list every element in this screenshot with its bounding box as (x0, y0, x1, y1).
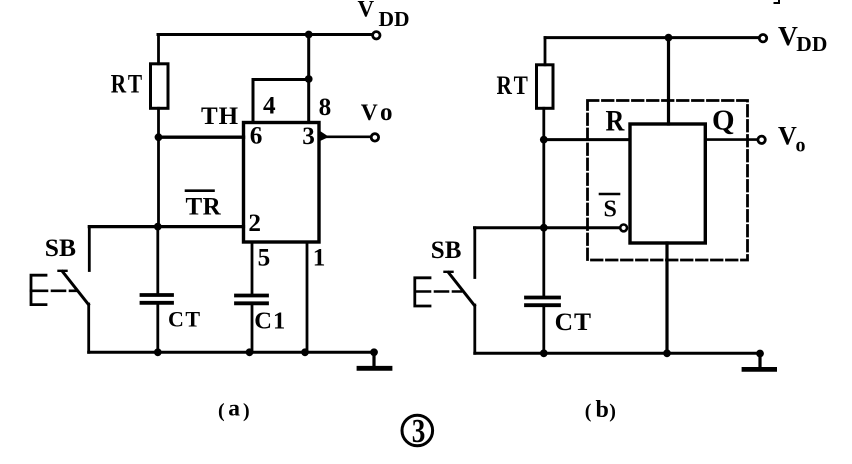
switch SB arm (a) (59, 271, 89, 305)
svg-text:V: V (778, 20, 798, 51)
node block-ground junction (b) (663, 349, 671, 357)
terminal VDD (a) (373, 32, 380, 39)
capacitor CT (a) bottom lead (156, 305, 159, 353)
svg-text:DD: DD (379, 7, 410, 31)
node pin4 branch junction (a) (305, 75, 313, 83)
svg-text:V: V (361, 100, 378, 126)
svg-text:(: ( (585, 401, 592, 423)
label (b) (585, 397, 616, 423)
svg-text:RT: RT (497, 72, 531, 100)
svg-text:3: 3 (412, 412, 426, 450)
wire TR line to pin 2 (a) (89, 225, 243, 228)
ground (a) (359, 348, 390, 368)
wire pin 5 lead to C1 (251, 242, 254, 293)
node supply junction (b) (665, 34, 673, 42)
svg-text:TR: TR (186, 193, 222, 220)
wire block bottom to ground rail (b) (665, 243, 668, 353)
ground (b) (744, 350, 775, 370)
node R junction (b) (540, 136, 548, 144)
dashed actuator link (a) (31, 289, 76, 292)
switch SB upper lead (b) (473, 228, 476, 278)
svg-text:8: 8 (319, 94, 332, 121)
switch SB arm (b) (445, 272, 475, 306)
node supply junction (a) (305, 31, 313, 39)
wire RT top lead (a) (157, 35, 160, 64)
svg-text:4: 4 (263, 93, 276, 120)
svg-text:6: 6 (250, 123, 263, 150)
capacitor C1 plates (236, 296, 267, 304)
svg-text:): ) (243, 400, 250, 422)
switch SB upper lead (a) (88, 227, 91, 271)
svg-text:SB: SB (45, 233, 76, 262)
svg-text:V: V (778, 121, 797, 150)
terminal VDD (b) (759, 35, 766, 42)
svg-text:a: a (228, 396, 240, 422)
switch SB lower lead (b) (473, 305, 476, 353)
terminal Vo (a) (371, 134, 378, 141)
label Vo (b) (778, 121, 806, 156)
capacitor CT (b) top lead (542, 228, 545, 296)
wire RT top lead (b) (544, 38, 547, 65)
pushbutton actuator symbol (b) (415, 278, 430, 306)
label TR with overline (186, 191, 222, 221)
node C1-ground junction (a) (246, 348, 254, 356)
svg-text:CT: CT (555, 307, 592, 336)
wire RT bottom lead down column (a) (157, 108, 160, 226)
capacitor CT (a) plates (142, 295, 173, 303)
svg-text:3: 3 (302, 123, 315, 150)
flip-flop block (b) (630, 124, 705, 243)
svg-text:5: 5 (258, 244, 271, 271)
svg-text:V: V (358, 0, 375, 22)
figure number 3 circled (402, 412, 433, 450)
page artifact top right (775, 0, 780, 3)
svg-text:TH: TH (201, 103, 239, 130)
svg-text:o: o (380, 99, 393, 126)
svg-text:o: o (796, 135, 806, 157)
node TH junction (a) (155, 133, 163, 141)
svg-text:2: 2 (248, 210, 261, 237)
capacitor CT (b) bottom lead (542, 307, 545, 353)
label S with overline (600, 194, 619, 223)
resistor RT (b) (537, 65, 554, 109)
node CT-ground junction (b) (540, 349, 548, 357)
node pin1-ground junction (a) (301, 348, 309, 356)
wire R input (b) (544, 138, 629, 141)
wire Q output (b) (705, 138, 757, 141)
wire pin 8 from rail (a) (307, 35, 310, 123)
pushbutton actuator symbol (a) (31, 275, 46, 304)
wire S input (b) (475, 226, 620, 229)
arrowhead on pin 3 output (a) (320, 131, 330, 142)
wire VDD supply rail (b) (545, 36, 757, 39)
label VDD (a) (358, 0, 410, 31)
svg-text:b: b (596, 397, 609, 423)
svg-text:S: S (604, 197, 617, 223)
label Vo (a) (361, 99, 393, 126)
svg-text:SB: SB (431, 237, 462, 264)
dashed actuator link (b) (415, 290, 461, 293)
wire output pin 3 (a) (319, 136, 372, 139)
wire pin 4 to supply branch (a) (253, 80, 309, 123)
inverter bubble on S input (b) (620, 225, 627, 232)
svg-text:DD: DD (796, 32, 827, 56)
wire VDD supply rail (a) (158, 33, 372, 36)
wire RT bottom lead down column (b) (542, 108, 545, 227)
svg-text:CT: CT (168, 307, 202, 332)
svg-text:(: ( (218, 400, 225, 422)
IC 555 timer U1 (a) (244, 123, 320, 243)
svg-text:RT: RT (111, 71, 145, 99)
resistor RT (a) (151, 64, 169, 109)
switch SB lower lead (a) (87, 304, 90, 352)
terminal Vo (b) (758, 136, 765, 143)
dashed box 555 internal (b) (588, 101, 748, 261)
node S junction (b) (540, 224, 548, 232)
svg-text:1: 1 (313, 244, 326, 271)
label VDD (b) (778, 20, 827, 56)
node CT-ground junction (a) (154, 348, 162, 356)
wire supply into block top (b) (667, 38, 670, 124)
svg-text:R: R (606, 105, 625, 138)
svg-text:Q: Q (712, 105, 735, 137)
svg-text:): ) (609, 401, 616, 423)
wire pin 1 to ground rail (a) (306, 242, 309, 352)
node TR junction (a) (154, 223, 162, 231)
capacitor CT (a) top lead (156, 227, 159, 293)
wire TH to pin 6 (a) (159, 135, 244, 138)
svg-text:C1: C1 (254, 308, 286, 335)
wire ground rail (a) (89, 351, 374, 354)
label (a) (218, 396, 250, 423)
wire ground rail (b) (475, 352, 760, 355)
capacitor C1 bottom lead (251, 305, 254, 352)
capacitor CT (b) plates (526, 298, 559, 306)
